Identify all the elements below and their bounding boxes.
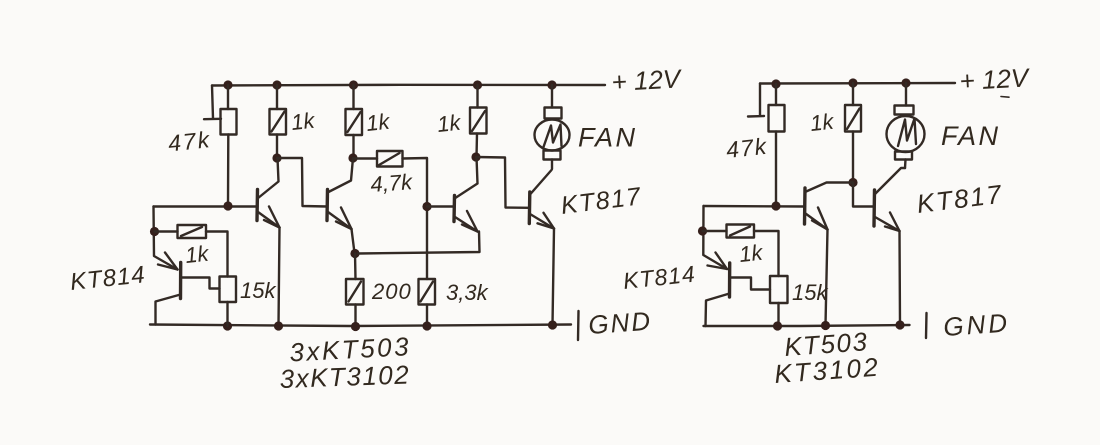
wire top +12V rail (left circuit) (212, 84, 605, 87)
label M (left motor) (544, 125, 562, 148)
node rail-47k junction (right) (771, 79, 780, 88)
svg-text:FAN: FAN (578, 123, 638, 153)
svg-text:KT817: KT817 (559, 182, 643, 220)
wire top +12V rail (right circuit) (760, 82, 955, 85)
stray mark under +12V digit (right) (1001, 96, 1009, 99)
svg-text:1k: 1k (365, 109, 392, 136)
transistor KT814 (right, PNP) (706, 253, 771, 327)
resistor 47k (left) (221, 85, 237, 206)
svg-text:3xKT3102: 3xKT3102 (279, 359, 410, 394)
wire ground rail (left circuit) (150, 325, 571, 327)
resistor 1k (right, KT814 base horizontal) (703, 225, 779, 277)
svg-text:1k: 1k (809, 109, 836, 136)
transistor KT817 (left output) (529, 170, 554, 229)
node gnd-200 (351, 322, 360, 331)
node T3 base junction on 3.3k leg (422, 202, 431, 211)
svg-text:FAN: FAN (941, 121, 1001, 151)
resistor 15k (right) (770, 276, 788, 326)
wire T1r base rail (704, 205, 806, 208)
transistor KT817 (right output) (874, 168, 905, 231)
resistor R1 1k (left, first stage collector) (270, 85, 287, 158)
node gnd-T1 emitter (274, 321, 283, 330)
svg-text:+ 12V: + 12V (959, 62, 1032, 96)
wire T1 emitter to ground (279, 228, 280, 326)
node KT814 emitter / 1k junction (150, 227, 159, 236)
svg-text:1k: 1k (290, 108, 317, 135)
wire KT817 emitter to ground (553, 229, 555, 325)
wire ground rail (right circuit) (704, 325, 910, 326)
node gnd-KT817r emitter (895, 320, 904, 329)
wire KT817 base link (476, 157, 530, 208)
svg-text:1k: 1k (436, 110, 463, 137)
svg-text:15k: 15k (792, 280, 828, 305)
svg-text:3,3k: 3,3k (446, 280, 489, 305)
wire T2 base link from R1 node (277, 158, 327, 207)
svg-text:15k: 15k (240, 278, 276, 303)
resistor 200 ohm (346, 254, 364, 327)
node gnd-15k (right) (773, 321, 782, 330)
resistor 1k (right collector) (845, 83, 861, 184)
svg-text:1k: 1k (184, 241, 211, 268)
node gnd-15k (223, 321, 232, 330)
label M (right motor) (898, 119, 916, 147)
node KT814r emitter / 1k junction (698, 226, 707, 235)
node 1k bottom / KT817 base (right) (848, 178, 857, 187)
wire T3 emitter to node A (358, 232, 480, 254)
node R3 bottom (T3 collector / KT817 base) (471, 152, 480, 161)
wire 47k wiper arm (204, 86, 221, 120)
transistor T3 KT503 (left stage 3) (427, 157, 478, 232)
node base-47k junction (right) (771, 201, 780, 210)
transistor KT814 (left, PNP) (156, 253, 220, 325)
wire KT817r emitter to ground (898, 231, 901, 325)
svg-text:+ 12V: + 12V (611, 63, 684, 97)
wire KT817r base (853, 183, 874, 207)
ground terminal tick (right) (925, 313, 928, 338)
svg-text:1k: 1k (738, 240, 765, 267)
svg-text:47k: 47k (167, 126, 213, 156)
motor FAN M2 (right) (887, 83, 925, 168)
svg-text:GND: GND (942, 307, 1011, 342)
svg-text:4,7k: 4,7k (370, 169, 414, 197)
node A shared emitter (T2/T3, 200 ohm) (350, 249, 359, 258)
node rail-FAN junction (right) (901, 78, 910, 87)
svg-text:GND: GND (587, 306, 653, 340)
transistor T2 KT503 (left stage 2) (327, 158, 353, 229)
resistor 47k (right) (769, 84, 785, 206)
motor FAN M1 (left) (535, 85, 570, 169)
node rail-47k junction (223, 80, 232, 89)
wire left branch down to KT814 emitter (154, 207, 178, 270)
svg-text:KT817: KT817 (915, 179, 1005, 219)
node gnd-3.3k (422, 321, 431, 330)
transistor T1r KT503 (right) (805, 183, 854, 230)
svg-text:47k: 47k (725, 133, 769, 163)
node gnd-T1r emitter (821, 321, 830, 330)
transistor T1 KT503 (left stage 1) (257, 158, 280, 228)
wire 47k wiper arm (right) (748, 84, 764, 117)
node rail-FAN junction (547, 80, 556, 89)
resistor 4.7k feedback (353, 151, 427, 207)
wire T2 emitter to node A (352, 229, 355, 253)
node base-47k junction (223, 201, 232, 210)
node rail-1k junction (right) (848, 78, 857, 87)
resistor 3.3k (419, 207, 436, 327)
ground terminal tick (left) (577, 311, 580, 340)
node R2 bottom (T2 collector / 4.7k) (348, 153, 357, 162)
node rail-R2 junction (349, 80, 358, 89)
svg-text:KT3102: KT3102 (773, 352, 881, 389)
node gnd-KT817 emitter (548, 320, 557, 329)
svg-text:200: 200 (371, 279, 412, 304)
node rail-R1 junction (272, 80, 281, 89)
wire T1 base rail (154, 205, 258, 207)
resistor R2 1k (left, second stage collector) (346, 85, 363, 158)
node R1 bottom (T1 collector / T2 base) (272, 153, 281, 162)
resistor R3 1k (left, third stage collector) (470, 85, 487, 157)
resistor 1k (left, KT814 base horizontal) (155, 225, 228, 277)
resistor 15k (left) (220, 277, 237, 327)
svg-text:KT814: KT814 (69, 261, 147, 296)
wire left branch down to KT814r emitter (703, 206, 727, 269)
svg-text:KT814: KT814 (622, 261, 697, 294)
node rail-R3 junction (473, 80, 482, 89)
wire T1r emitter to ground (826, 230, 828, 326)
